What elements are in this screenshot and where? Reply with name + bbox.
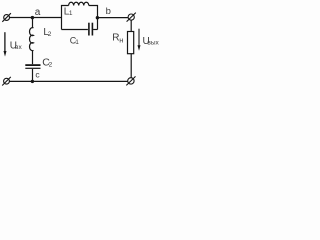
svg-text:1: 1	[75, 39, 79, 46]
svg-text:вх: вх	[15, 44, 22, 51]
svg-text:2: 2	[49, 62, 53, 69]
svg-text:a: a	[35, 7, 41, 18]
svg-text:вых: вых	[147, 40, 159, 47]
svg-text:c: c	[35, 70, 40, 80]
svg-text:1: 1	[69, 10, 73, 17]
svg-text:2: 2	[48, 31, 52, 38]
svg-text:b: b	[106, 6, 111, 17]
svg-text:н: н	[119, 36, 123, 45]
